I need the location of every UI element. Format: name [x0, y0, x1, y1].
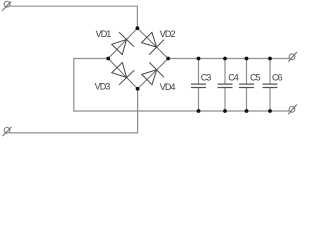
- svg-text:VD3: VD3: [95, 81, 111, 91]
- svg-text:VD1: VD1: [96, 29, 112, 39]
- svg-text:C6: C6: [272, 73, 283, 83]
- svg-text:C3: C3: [201, 73, 212, 83]
- svg-text:VD2: VD2: [160, 29, 176, 39]
- svg-text:C4: C4: [228, 73, 239, 83]
- svg-text:VD4: VD4: [160, 82, 176, 92]
- svg-text:C5: C5: [250, 73, 261, 83]
